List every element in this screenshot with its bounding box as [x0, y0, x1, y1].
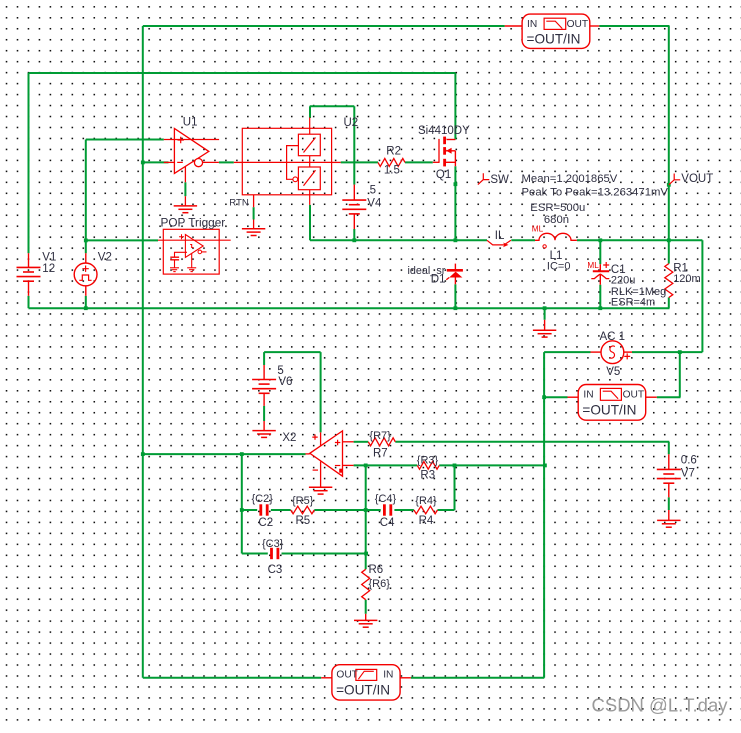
- svg-text:X2: X2: [282, 432, 296, 444]
- svg-text:R3: R3: [420, 470, 435, 482]
- svg-text:V1: V1: [42, 252, 56, 264]
- svg-text:{R3}: {R3}: [417, 455, 439, 467]
- svg-text:OUT: OUT: [336, 670, 358, 681]
- svg-text:D1: D1: [431, 274, 446, 286]
- svg-text:{R6}: {R6}: [369, 578, 391, 590]
- svg-text:CSDN @L.T.day: CSDN @L.T.day: [592, 695, 729, 716]
- svg-text:Q1: Q1: [436, 169, 451, 181]
- svg-text:0.6: 0.6: [681, 455, 697, 467]
- svg-text:=OUT/IN: =OUT/IN: [582, 403, 636, 418]
- svg-text:ESR=500u: ESR=500u: [530, 202, 585, 214]
- svg-text:C2: C2: [258, 517, 273, 529]
- svg-text:R2: R2: [386, 146, 401, 158]
- svg-text:U1: U1: [183, 116, 198, 128]
- svg-text:=OUT/IN: =OUT/IN: [336, 683, 390, 698]
- svg-text:OUT: OUT: [623, 390, 645, 401]
- svg-text:12: 12: [42, 263, 55, 275]
- svg-text:SW: SW: [490, 174, 509, 186]
- svg-text:=OUT/IN: =OUT/IN: [527, 32, 581, 47]
- svg-text:ML: ML: [587, 261, 599, 270]
- svg-text:IL: IL: [495, 230, 505, 242]
- svg-text:ESR=4m: ESR=4m: [611, 296, 655, 308]
- svg-text:Peak To Peak=13.263471mV: Peak To Peak=13.263471mV: [522, 187, 669, 199]
- svg-text:IN: IN: [383, 670, 393, 681]
- svg-text:ML: ML: [532, 225, 544, 234]
- svg-text:IN: IN: [583, 390, 593, 401]
- svg-text:1.5: 1.5: [384, 165, 400, 177]
- svg-text:V2: V2: [98, 252, 112, 264]
- svg-text:{R4}: {R4}: [415, 495, 437, 507]
- svg-text:C3: C3: [268, 564, 283, 576]
- svg-text:Mean=1.2001865V: Mean=1.2001865V: [522, 173, 618, 185]
- svg-text:5: 5: [370, 185, 376, 197]
- svg-text:5: 5: [277, 365, 283, 377]
- svg-text:C4: C4: [380, 517, 395, 529]
- svg-text:V4: V4: [367, 197, 382, 209]
- svg-text:680n: 680n: [544, 214, 569, 226]
- svg-text:220u: 220u: [611, 274, 635, 286]
- svg-text:V7: V7: [681, 468, 695, 480]
- svg-text:R7: R7: [373, 448, 388, 460]
- svg-text:R6: R6: [369, 564, 384, 576]
- svg-text:V5: V5: [606, 366, 620, 378]
- svg-text:{R7}: {R7}: [369, 430, 391, 442]
- svg-text:IC=0: IC=0: [547, 261, 571, 273]
- svg-text:{R5}: {R5}: [292, 495, 314, 507]
- svg-text:{C4}: {C4}: [375, 493, 397, 505]
- svg-text:{C3}: {C3}: [262, 538, 284, 550]
- svg-text:R4: R4: [419, 515, 434, 527]
- svg-text:{C2}: {C2}: [252, 493, 274, 505]
- svg-text:R5: R5: [296, 515, 311, 527]
- svg-text:VOUT: VOUT: [681, 173, 713, 185]
- svg-text:RTN: RTN: [229, 198, 249, 209]
- svg-text:POP Trigger: POP Trigger: [161, 215, 226, 229]
- svg-text:Si4410DY: Si4410DY: [418, 125, 470, 137]
- svg-text:AC 1: AC 1: [600, 331, 626, 343]
- svg-text:IN: IN: [527, 19, 537, 30]
- svg-text:V6: V6: [278, 376, 292, 388]
- svg-text:120m: 120m: [673, 273, 701, 285]
- svg-text:OUT: OUT: [567, 19, 589, 30]
- svg-text:U2: U2: [344, 117, 359, 129]
